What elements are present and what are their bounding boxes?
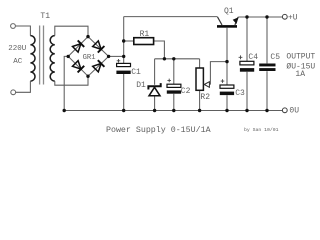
wire top rail right xyxy=(238,16,282,18)
wire C5 bottom lead xyxy=(266,71,268,110)
wire bridge plus to C1 node xyxy=(109,55,124,57)
wire top rail left xyxy=(124,16,218,18)
transistor Q1 emitter arrow xyxy=(233,17,239,24)
capacitor C4 xyxy=(239,55,255,71)
wire C1 bottom lead xyxy=(123,74,125,111)
wire D1 cathode lead xyxy=(154,59,156,85)
bridge diode lower-right xyxy=(93,60,105,72)
resistor R1 xyxy=(134,38,154,45)
terminal AC top xyxy=(11,24,16,29)
terminal +U xyxy=(282,14,287,19)
svg-text:by San 10/01: by San 10/01 xyxy=(244,127,279,133)
svg-text:220U: 220U xyxy=(8,45,26,53)
transformer T1 secondary winding xyxy=(50,36,55,81)
wire secondary bottom lead to bridge bottom xyxy=(55,76,88,85)
capacitor C2 xyxy=(167,79,181,94)
transistor Q1 base bar xyxy=(217,25,237,28)
wire R2 bottom lead xyxy=(199,91,201,111)
capacitor C1 xyxy=(116,59,130,74)
wire R1 right lead down to ref rail xyxy=(154,41,165,59)
wire D1 anode lead xyxy=(154,96,156,111)
svg-text:C3: C3 xyxy=(235,89,245,98)
zener diode D1 xyxy=(148,83,160,96)
svg-text:C5: C5 xyxy=(270,53,280,62)
terminal 0V xyxy=(282,108,287,113)
transistor Q1 xyxy=(218,17,239,25)
svg-text:0U: 0U xyxy=(289,107,299,116)
wire C2 top lead xyxy=(173,59,175,84)
wire C3 bottom lead xyxy=(226,95,228,110)
wire bridge minus to bottom rail xyxy=(64,56,68,110)
wire C5 top lead xyxy=(266,17,268,63)
svg-text:AC: AC xyxy=(13,58,23,66)
capacitor C5 xyxy=(259,64,275,72)
wire primary bottom lead xyxy=(16,81,31,92)
wire R2 top lead xyxy=(199,59,201,68)
wire secondary top lead to bridge top xyxy=(55,26,88,36)
bridge GR1 diamond edges xyxy=(68,37,108,77)
bridge diode upper-left xyxy=(73,40,85,52)
wire primary top lead xyxy=(16,26,31,36)
svg-text:C2: C2 xyxy=(181,87,191,96)
svg-text:Q1: Q1 xyxy=(224,7,234,16)
svg-text:R1: R1 xyxy=(140,30,150,39)
transformer T1 primary winding xyxy=(30,36,35,81)
bridge diode upper-right xyxy=(93,41,105,53)
bridge diode lower-left xyxy=(73,61,85,73)
wire C1 node up to top rail xyxy=(123,17,125,57)
svg-text:R2: R2 xyxy=(200,93,210,102)
capacitor C3 xyxy=(220,79,234,95)
potentiometer R2 wiper arrow xyxy=(204,82,209,88)
wire C4 top lead xyxy=(246,17,248,61)
wire Q1 base down, tee to wiper xyxy=(226,28,228,85)
terminal AC bottom xyxy=(11,90,16,95)
svg-text:OUTPUT: OUTPUT xyxy=(286,52,315,61)
wire C4 bottom lead xyxy=(246,72,248,111)
wire C1 top lead xyxy=(123,56,125,63)
wire base tee to R2 wiper xyxy=(210,62,227,85)
transformer core xyxy=(40,26,44,85)
wire C2 bottom lead xyxy=(173,94,175,111)
svg-text:C1: C1 xyxy=(131,68,141,77)
svg-text:D1: D1 xyxy=(136,81,146,90)
svg-text:+U: +U xyxy=(288,14,298,23)
svg-text:T1: T1 xyxy=(40,12,50,21)
svg-text:GR1: GR1 xyxy=(83,54,96,62)
svg-text:C4: C4 xyxy=(248,53,258,62)
svg-text:Power Supply 0-15U/1A: Power Supply 0-15U/1A xyxy=(106,125,211,135)
wire bottom rail xyxy=(64,110,282,112)
wire reference rail xyxy=(155,58,200,60)
svg-text:1A: 1A xyxy=(295,70,305,79)
wire R1 left lead xyxy=(124,40,134,42)
potentiometer R2 body xyxy=(196,68,203,90)
